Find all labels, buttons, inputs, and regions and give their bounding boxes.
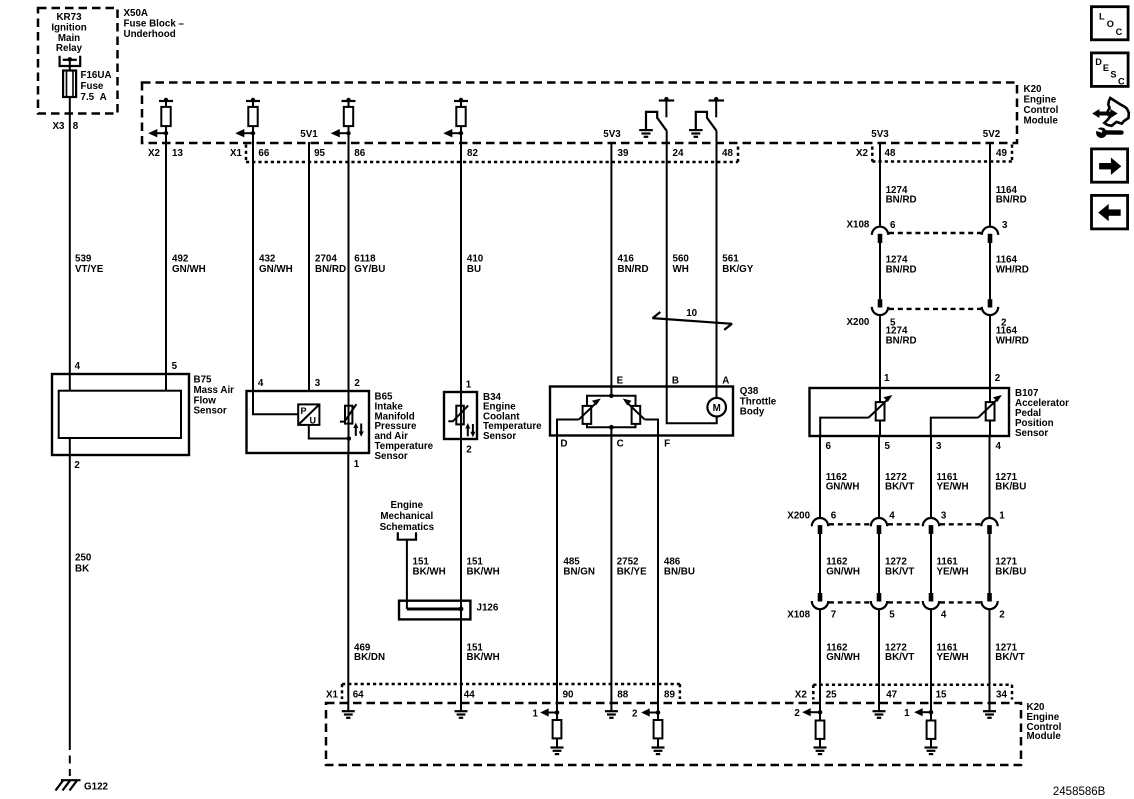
svg-text:BK/BU: BK/BU bbox=[995, 482, 1026, 493]
relay KR73 contact symbol bbox=[60, 56, 81, 66]
svg-text:2: 2 bbox=[466, 445, 472, 456]
svg-text:5: 5 bbox=[889, 610, 895, 621]
svg-text:5V2: 5V2 bbox=[983, 129, 1001, 140]
svg-text:82: 82 bbox=[467, 148, 478, 159]
svg-text:64: 64 bbox=[353, 690, 364, 701]
connector X1 dotted boundary line bbox=[245, 145, 248, 163]
svg-text:D: D bbox=[560, 439, 567, 450]
wire 1161 YE/WH X108-4 to ECM X2-15 bbox=[930, 610, 932, 704]
svg-text:BK/VT: BK/VT bbox=[995, 652, 1024, 663]
wire 1271 BK/BU X200-1 to X108-2 bbox=[989, 534, 991, 593]
svg-text:GN/WH: GN/WH bbox=[826, 566, 860, 577]
svg-text:25: 25 bbox=[826, 690, 837, 701]
svg-text:39: 39 bbox=[618, 148, 629, 159]
ground inside ECM at pin 44 bbox=[455, 703, 468, 718]
svg-text:90: 90 bbox=[563, 690, 574, 701]
svg-text:B: B bbox=[672, 375, 679, 386]
wire 151 BK/WH bracket to J126 bbox=[406, 540, 408, 609]
svg-text:YE/WH: YE/WH bbox=[937, 566, 969, 577]
fuse F16UA symbol bbox=[63, 71, 76, 98]
B107 pot1 bottom wire to pin 5 bbox=[879, 421, 881, 437]
connector X200 pin 6 symbol bbox=[812, 518, 828, 534]
svg-text:A: A bbox=[722, 375, 729, 386]
Q38 wiper wire pin D bbox=[557, 420, 579, 436]
svg-text:BK/WH: BK/WH bbox=[467, 566, 500, 577]
svg-text:Main: Main bbox=[58, 33, 80, 44]
svg-text:BN/RD: BN/RD bbox=[886, 195, 917, 206]
actuator Q38 Throttle Body box bbox=[550, 387, 733, 436]
svg-text:C: C bbox=[1118, 77, 1125, 87]
svg-text:O: O bbox=[1107, 19, 1114, 29]
svg-text:Schematics: Schematics bbox=[380, 522, 435, 533]
svg-text:KR73: KR73 bbox=[56, 12, 82, 23]
svg-text:BN/RD: BN/RD bbox=[618, 264, 649, 275]
svg-text:BK/DN: BK/DN bbox=[354, 652, 385, 663]
Q38 TPS bottom rail to pin C bbox=[587, 424, 636, 436]
connector X200 pin 1 symbol bbox=[981, 518, 997, 534]
K20 engine control module bottom dashed box bbox=[326, 703, 1021, 765]
svg-text:432: 432 bbox=[259, 254, 276, 265]
svg-text:X2: X2 bbox=[795, 690, 808, 701]
svg-text:M: M bbox=[713, 403, 721, 414]
svg-text:X50A: X50A bbox=[124, 8, 149, 19]
svg-text:X108: X108 bbox=[787, 610, 810, 621]
resistor driver in ECM at pin X2-13 bbox=[148, 98, 173, 143]
connector X200 pin 4 symbol bbox=[871, 518, 887, 534]
wire 539 VT/YE fuse to B75 pin 4 bbox=[69, 97, 71, 391]
svg-text:48: 48 bbox=[885, 148, 896, 159]
B65 thermistor symbol bbox=[340, 391, 357, 453]
svg-text:X3: X3 bbox=[53, 121, 66, 132]
wire 560 WH ECM pin 24 to Q38 pin B bbox=[666, 143, 668, 387]
wire 432 GN/WH ECM X1-66 to B65 pin 4 bbox=[252, 143, 254, 391]
svg-text:95: 95 bbox=[314, 148, 325, 159]
wire 492 GN/WH ECM X2-13 to B75 pin 5 bbox=[165, 143, 167, 391]
svg-text:Engine: Engine bbox=[1024, 95, 1057, 106]
svg-text:2: 2 bbox=[999, 610, 1005, 621]
svg-text:539: 539 bbox=[75, 254, 92, 265]
sense resistor to ground at pin 90 bbox=[540, 703, 563, 754]
svg-text:4: 4 bbox=[889, 511, 895, 522]
Q38 potentiometer 2 bbox=[623, 399, 645, 424]
sensor B107 Accelerator Pedal Position Sensor box bbox=[810, 388, 1010, 436]
svg-text:X200: X200 bbox=[787, 511, 810, 522]
icon wrench with arrows bbox=[1092, 98, 1129, 138]
svg-text:D: D bbox=[1095, 57, 1102, 67]
svg-text:P: P bbox=[301, 406, 307, 416]
svg-text:48: 48 bbox=[722, 148, 733, 159]
svg-text:4: 4 bbox=[941, 610, 947, 621]
wire 1164 BN/RD ECM X2-49 to X108-3 bbox=[989, 143, 991, 227]
svg-text:GN/WH: GN/WH bbox=[172, 264, 206, 275]
svg-text:6: 6 bbox=[826, 441, 832, 452]
svg-text:6: 6 bbox=[831, 511, 837, 522]
connector X108 pin 2 symbol bbox=[981, 593, 997, 609]
B107 potentiometer 1 bbox=[869, 395, 893, 421]
svg-text:X1: X1 bbox=[326, 690, 339, 701]
svg-text:Body: Body bbox=[740, 407, 765, 418]
connector X2 dotted boundary bottom right bbox=[812, 685, 815, 700]
wire 1271 BK/BU B107-4 to X200-1 bbox=[989, 436, 991, 518]
wire 1161 YE/WH B107-3 to X200-3 bbox=[930, 436, 932, 518]
svg-text:Sensor: Sensor bbox=[483, 431, 516, 442]
sense resistor to ground at pin 15 bbox=[914, 703, 937, 754]
svg-text:X2: X2 bbox=[856, 148, 869, 159]
svg-text:5: 5 bbox=[172, 361, 178, 372]
resistor driver in ECM at pin X1-82 bbox=[443, 98, 468, 143]
svg-text:4: 4 bbox=[996, 441, 1002, 452]
switch to ground in ECM at pin X1-48 bbox=[689, 97, 724, 143]
connector X108 pin 3 symbol bbox=[982, 227, 998, 243]
svg-text:13: 13 bbox=[172, 148, 183, 159]
svg-text:3: 3 bbox=[941, 511, 947, 522]
wire 1274 BN/RD X108-6 to X200-5 bbox=[879, 243, 881, 299]
svg-text:F16UA: F16UA bbox=[81, 70, 112, 81]
svg-text:C: C bbox=[617, 439, 624, 450]
Q38 potentiometer 1 bbox=[579, 399, 601, 424]
svg-text:4: 4 bbox=[258, 378, 264, 389]
svg-text:2: 2 bbox=[74, 460, 80, 471]
svg-text:416: 416 bbox=[618, 254, 635, 265]
cable marker 10 crossing wires bbox=[652, 308, 732, 330]
svg-text:GY/BU: GY/BU bbox=[354, 264, 385, 275]
connector X200 pin 5 symbol bbox=[872, 299, 888, 315]
wire 1164 WH/RD X108-3 to X200-2 bbox=[989, 243, 991, 299]
ground inside ECM at pin 47 bbox=[873, 703, 886, 718]
svg-text:K20: K20 bbox=[1024, 84, 1043, 95]
svg-text:X108: X108 bbox=[847, 220, 870, 231]
svg-text:8: 8 bbox=[73, 121, 79, 132]
svg-text:2: 2 bbox=[632, 708, 638, 719]
B107 wiper wire pin 3 bbox=[931, 418, 978, 436]
icon box arrow left bbox=[1092, 195, 1128, 229]
svg-text:YE/WH: YE/WH bbox=[937, 652, 969, 663]
switch to ground in ECM at pin X1-24 bbox=[639, 97, 674, 143]
sensor B34 Engine Coolant Temperature Sensor box bbox=[444, 392, 477, 439]
svg-text:Module: Module bbox=[1024, 116, 1059, 127]
ground G122 chassis symbol bbox=[56, 780, 81, 791]
Q38 wiper wire pin F bbox=[645, 420, 658, 436]
svg-text:1: 1 bbox=[466, 379, 472, 390]
ground inside ECM at pin 64 bbox=[342, 703, 355, 718]
svg-text:6118: 6118 bbox=[354, 254, 376, 265]
svg-text:3: 3 bbox=[315, 378, 321, 389]
svg-text:BK/VT: BK/VT bbox=[885, 482, 914, 493]
svg-text:Engine: Engine bbox=[390, 500, 423, 511]
svg-text:410: 410 bbox=[467, 254, 484, 265]
svg-text:24: 24 bbox=[673, 148, 684, 159]
svg-text:Sensor: Sensor bbox=[1015, 428, 1048, 439]
svg-text:3: 3 bbox=[1002, 220, 1008, 231]
svg-text:492: 492 bbox=[172, 254, 189, 265]
wire relay to fuse bbox=[69, 60, 71, 71]
svg-text:7.5 A: 7.5 A bbox=[81, 92, 107, 103]
svg-text:VT/YE: VT/YE bbox=[75, 264, 104, 275]
svg-text:U: U bbox=[310, 415, 317, 425]
svg-text:44: 44 bbox=[464, 690, 475, 701]
svg-text:89: 89 bbox=[664, 690, 675, 701]
svg-text:BN/RD: BN/RD bbox=[886, 264, 917, 275]
svg-text:1: 1 bbox=[884, 373, 890, 384]
svg-text:GN/WH: GN/WH bbox=[826, 482, 860, 493]
svg-text:5V1: 5V1 bbox=[300, 129, 318, 140]
connector X1 dotted boundary bottom left bbox=[341, 684, 344, 699]
svg-text:BN/RD: BN/RD bbox=[886, 336, 917, 347]
svg-text:X1: X1 bbox=[230, 148, 243, 159]
svg-text:5V3: 5V3 bbox=[871, 129, 889, 140]
connector X108 pin 7 symbol bbox=[812, 593, 828, 609]
fuse block X50A dashed box bbox=[38, 8, 118, 114]
B65 temperature arrows bbox=[353, 423, 363, 437]
svg-text:560: 560 bbox=[673, 254, 690, 265]
connector X108 pin 5 symbol bbox=[871, 593, 887, 609]
svg-text:Underhood: Underhood bbox=[124, 29, 176, 40]
wire 1162 GN/WH X108-7 to ECM X2-25 bbox=[819, 610, 821, 704]
wire 1162 GN/WH B107-6 to X200-6 bbox=[819, 436, 821, 518]
svg-text:Ignition: Ignition bbox=[51, 22, 86, 33]
B34 temperature arrows bbox=[465, 423, 475, 437]
svg-text:88: 88 bbox=[617, 690, 628, 701]
svg-text:BN/RD: BN/RD bbox=[315, 264, 346, 275]
Q38 wire pin A to motor bbox=[716, 387, 718, 398]
wire 561 BK/GY ECM pin 48 to Q38 pin A bbox=[716, 143, 718, 387]
B65 internal wire pin 4 to P/U transducer bbox=[253, 391, 298, 414]
svg-text:BK/YE: BK/YE bbox=[617, 566, 647, 577]
wire 2752 BK/YE Q38 pin C to ECM pin 88 bbox=[610, 436, 612, 704]
ground inside ECM at pin 88 bbox=[605, 703, 618, 718]
connector X200 pin 3 symbol bbox=[923, 518, 939, 534]
svg-text:5: 5 bbox=[885, 441, 891, 452]
svg-text:2: 2 bbox=[794, 708, 800, 719]
dashed connector link X200 row bbox=[889, 308, 981, 310]
svg-text:1: 1 bbox=[904, 708, 910, 719]
svg-text:3: 3 bbox=[936, 441, 942, 452]
resistor driver in ECM at pin X1-86 bbox=[331, 98, 356, 143]
svg-text:2458586B: 2458586B bbox=[1053, 786, 1106, 798]
sense resistor to ground at pin 89 bbox=[641, 703, 664, 754]
svg-text:Fuse Block –: Fuse Block – bbox=[124, 18, 185, 29]
svg-text:1: 1 bbox=[354, 459, 360, 470]
B107 pot2 bottom wire to pin 4 bbox=[989, 421, 991, 437]
sense resistor to ground at pin 25 bbox=[802, 703, 826, 754]
svg-text:C: C bbox=[1116, 27, 1123, 37]
wire 469 BK/DN B65 pin 1 down to ECM X1-64 bbox=[347, 453, 349, 703]
B107 potentiometer 2 bbox=[978, 395, 1002, 421]
svg-text:BN/BU: BN/BU bbox=[664, 566, 695, 577]
wire 410 BU ECM pin 82 to B34 pin 1 bbox=[460, 143, 462, 392]
svg-text:G122: G122 bbox=[84, 782, 109, 793]
svg-text:34: 34 bbox=[996, 690, 1007, 701]
svg-text:BK/GY: BK/GY bbox=[722, 264, 753, 275]
svg-text:Module: Module bbox=[1027, 731, 1062, 742]
splice pack J126 bbox=[399, 601, 470, 620]
B107 wiper wire pin 6 bbox=[820, 418, 868, 436]
svg-text:WH/RD: WH/RD bbox=[996, 336, 1029, 347]
svg-text:6: 6 bbox=[890, 220, 896, 231]
svg-text:BK/WH: BK/WH bbox=[467, 652, 500, 663]
sensor B75 Mass Air Flow Sensor outer box bbox=[52, 374, 189, 455]
svg-text:4: 4 bbox=[75, 361, 81, 372]
icon box arrow right bbox=[1092, 149, 1128, 182]
dashed connector links X200 bottom row bbox=[829, 523, 870, 525]
svg-text:47: 47 bbox=[886, 690, 897, 701]
svg-text:5V3: 5V3 bbox=[603, 129, 621, 140]
svg-text:Mechanical: Mechanical bbox=[380, 511, 433, 522]
svg-text:Relay: Relay bbox=[56, 43, 83, 54]
svg-text:Fuse: Fuse bbox=[81, 81, 104, 92]
B65 pressure transducer P/U symbol bbox=[298, 404, 319, 425]
connector X2 dotted boundary line (right) bbox=[871, 147, 874, 162]
svg-text:2: 2 bbox=[354, 378, 360, 389]
B65 internal wire P/U bottom to pin1 junction bbox=[309, 425, 349, 439]
svg-text:X200: X200 bbox=[847, 317, 870, 328]
svg-text:BK: BK bbox=[75, 563, 89, 574]
sensor B65 Intake Manifold Pressure and Air Temperature Sensor box bbox=[247, 391, 370, 453]
connector X108 pin 6 symbol bbox=[872, 227, 888, 243]
ground inside ECM at pin 34 bbox=[983, 703, 996, 718]
svg-text:1: 1 bbox=[999, 511, 1005, 522]
svg-text:S: S bbox=[1110, 70, 1116, 80]
wire 1164 WH/RD X200-2 to B107 pin 2 bbox=[989, 315, 991, 402]
B75 inner element box bbox=[59, 391, 181, 438]
svg-text:250: 250 bbox=[75, 553, 92, 564]
dashed connector link X108 row bbox=[889, 232, 981, 234]
svg-text:Sensor: Sensor bbox=[375, 451, 408, 462]
resistor driver in ECM at pin X1-66 bbox=[235, 98, 260, 143]
svg-text:BK/VT: BK/VT bbox=[885, 566, 914, 577]
svg-text:WH: WH bbox=[673, 264, 689, 275]
wire 2704 BN/RD ECM pin 95 to B65 pin 3 bbox=[308, 142, 310, 391]
junction dot in B65 bbox=[347, 436, 352, 441]
svg-text:YE/WH: YE/WH bbox=[937, 482, 969, 493]
svg-text:1: 1 bbox=[532, 708, 538, 719]
wire 6118 GY/BU ECM pin 86 to B65 pin 2 bbox=[348, 143, 350, 391]
svg-text:GN/WH: GN/WH bbox=[826, 652, 860, 663]
svg-text:BK/WH: BK/WH bbox=[413, 566, 446, 577]
svg-text:BN/RD: BN/RD bbox=[996, 195, 1027, 206]
svg-text:Control: Control bbox=[1024, 105, 1059, 116]
svg-text:2: 2 bbox=[995, 373, 1001, 384]
K20 engine control module top dashed box bbox=[142, 83, 1017, 144]
B34 thermistor symbol bbox=[448, 392, 468, 439]
connector X200 pin 2 symbol bbox=[982, 299, 998, 315]
wire 1272 BK/VT X108-5 to ECM X2-47 bbox=[878, 610, 880, 704]
icon box LOC bbox=[1091, 7, 1128, 40]
svg-text:10: 10 bbox=[686, 308, 697, 319]
svg-text:B75: B75 bbox=[194, 375, 213, 386]
wire 1272 BK/VT B107-5 to X200-4 bbox=[878, 436, 880, 518]
svg-text:E: E bbox=[1103, 63, 1109, 73]
wire 1274 BN/RD X200-5 to B107 pin 1 bbox=[879, 315, 881, 402]
connector X108 pin 4 symbol bbox=[923, 593, 939, 609]
wire 486 BN/BU Q38 pin F to ECM pin 89 bbox=[657, 436, 659, 704]
svg-text:561: 561 bbox=[722, 254, 739, 265]
svg-text:J126: J126 bbox=[477, 603, 499, 614]
wire 485 BN/GN Q38 pin D to ECM pin 90 bbox=[556, 436, 558, 704]
svg-text:L: L bbox=[1099, 12, 1105, 22]
svg-text:66: 66 bbox=[258, 148, 269, 159]
wire 1161 YE/WH X200-3 to X108-4 bbox=[930, 534, 932, 593]
dashed connector links X108 bottom row bbox=[829, 601, 870, 603]
off-page bracket under label bbox=[398, 532, 416, 540]
wire 1162 GN/WH X200-6 to X108-7 bbox=[819, 534, 821, 593]
svg-text:7: 7 bbox=[831, 610, 837, 621]
svg-text:15: 15 bbox=[936, 690, 947, 701]
svg-text:49: 49 bbox=[996, 148, 1007, 159]
Q38 wire pin B to motor bbox=[667, 387, 717, 424]
svg-text:BK/VT: BK/VT bbox=[885, 652, 914, 663]
wire 1271 BK/VT X108-2 to ECM X2-34 bbox=[989, 610, 991, 704]
Q38 TPS top rail from pin E bbox=[587, 387, 636, 406]
svg-text:86: 86 bbox=[354, 148, 365, 159]
svg-text:GN/WH: GN/WH bbox=[259, 264, 293, 275]
wire 1274 BN/RD ECM X2-48 to X108-6 bbox=[879, 143, 881, 227]
svg-text:2704: 2704 bbox=[315, 254, 337, 265]
wire 416 BN/RD ECM pin 39 to Q38 pin E bbox=[610, 142, 612, 387]
svg-text:Sensor: Sensor bbox=[194, 406, 227, 417]
svg-text:BN/GN: BN/GN bbox=[563, 566, 595, 577]
svg-text:E: E bbox=[617, 375, 624, 386]
svg-text:BU: BU bbox=[467, 264, 481, 275]
Q38 motor M circle bbox=[707, 398, 726, 417]
icon box DESC bbox=[1091, 53, 1128, 87]
svg-text:WH/RD: WH/RD bbox=[996, 264, 1029, 275]
svg-text:BK/BU: BK/BU bbox=[995, 566, 1026, 577]
wire 250 BK B75 pin 2 to G122 bbox=[69, 438, 71, 742]
wire 1272 BK/VT X200-4 to X108-5 bbox=[878, 534, 880, 593]
svg-text:X2: X2 bbox=[148, 148, 161, 159]
wire 151 BK/WH B34 pin 2 down through J126 to ECM pin 44 bbox=[460, 439, 462, 703]
svg-text:F: F bbox=[664, 439, 670, 450]
